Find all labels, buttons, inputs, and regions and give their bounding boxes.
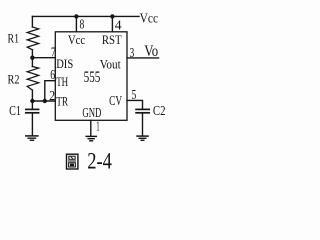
wire C2 to ground [142, 113, 144, 136]
wire top rail [32, 15, 139, 17]
svg-text:CV: CV [109, 93, 122, 108]
capacitor C2 [136, 108, 149, 110]
wire C1 drop [31, 101, 33, 109]
svg-text:C1: C1 [9, 104, 21, 119]
ground (C1) [26, 135, 38, 137]
wire R1 to node [31, 50, 33, 58]
svg-text:7: 7 [51, 46, 56, 61]
wire pin5 CV [127, 100, 143, 109]
svg-text:GND: GND [82, 105, 101, 120]
resistor R1 [27, 27, 39, 50]
svg-text:Vcc: Vcc [68, 33, 86, 47]
capacitor C1 [26, 108, 39, 110]
wire pin1 GND [90, 120, 92, 135]
svg-text:DIS: DIS [56, 57, 73, 71]
svg-text:2-4: 2-4 [87, 148, 112, 173]
ground (C2) [137, 135, 148, 137]
svg-text:Vcc: Vcc [140, 12, 159, 27]
svg-text:8: 8 [80, 18, 85, 33]
node top pin4 junction [110, 14, 114, 18]
node R2/C1 [30, 99, 34, 103]
svg-text:C2: C2 [153, 104, 166, 119]
wire C1 to ground [31, 113, 33, 135]
svg-text:TH: TH [56, 75, 68, 89]
wire R2 to bottom node [31, 90, 33, 101]
caption glyph 圖 (drawn) [67, 154, 78, 169]
wire R1 top drop [31, 16, 33, 27]
svg-text:6: 6 [50, 68, 55, 83]
svg-text:1: 1 [96, 119, 99, 134]
wire bottom node to pin2 TR [32, 100, 55, 102]
svg-text:3: 3 [130, 46, 135, 61]
svg-text:2: 2 [49, 89, 55, 104]
svg-text:TR: TR [56, 94, 68, 108]
wire pin4 [111, 16, 113, 31]
resistor R2 [27, 67, 39, 91]
svg-text:R1: R1 [8, 31, 20, 46]
node TH/TR branch [43, 99, 47, 103]
svg-text:R2: R2 [8, 71, 20, 86]
svg-text:Vout: Vout [100, 57, 121, 71]
svg-text:5: 5 [132, 88, 137, 103]
wire R2 top drop [31, 58, 33, 67]
svg-text:Vo: Vo [144, 43, 158, 60]
wire pin7 DIS [32, 57, 55, 59]
wire pin3 Vout [127, 57, 159, 59]
ground (pin1) [86, 135, 96, 137]
svg-text:555: 555 [84, 69, 101, 86]
svg-text:RST: RST [102, 33, 122, 47]
node R1/R2/DIS [30, 56, 34, 60]
op-amp U1 555 timer box [55, 32, 127, 121]
node top pin8 junction [74, 14, 78, 18]
wire pin8 [75, 16, 77, 31]
wire pin6 riser [45, 81, 56, 101]
svg-text:4: 4 [115, 18, 122, 33]
